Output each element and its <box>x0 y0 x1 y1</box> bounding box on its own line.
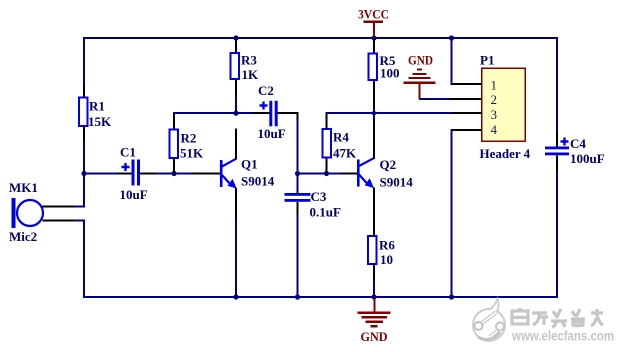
capacitor C1 <box>118 145 156 203</box>
svg-text:10uF: 10uF <box>120 187 148 202</box>
wire right rail lower <box>556 170 558 298</box>
junction top pin1 <box>449 35 454 40</box>
wire header pin1 up <box>451 38 453 85</box>
ground GND bottom <box>358 298 391 344</box>
svg-text:47K: 47K <box>333 146 357 161</box>
ground GND top <box>404 53 482 101</box>
resistor R5 <box>369 39 400 108</box>
svg-text:3VCC: 3VCC <box>358 7 389 22</box>
junction top 3VCC <box>371 35 376 40</box>
capacitor C3 <box>285 175 341 220</box>
resistor R3 <box>231 39 260 95</box>
watermark text <box>511 308 614 344</box>
svg-text:4: 4 <box>491 122 498 137</box>
svg-text:GND: GND <box>408 53 433 68</box>
svg-text:C3: C3 <box>311 189 327 204</box>
svg-text:R1: R1 <box>89 99 105 114</box>
svg-text:Header 4: Header 4 <box>480 146 531 161</box>
wire left rail mid <box>83 141 85 206</box>
junction node B collector1 <box>233 111 238 116</box>
junction node A mic/R1/C1 <box>81 171 86 176</box>
wire mic bottom to bottom rail <box>83 220 85 298</box>
svg-text:C1: C1 <box>120 145 136 160</box>
wire C3 bottom down <box>297 214 299 298</box>
capacitor C2 <box>252 83 299 141</box>
svg-text:100uF: 100uF <box>570 151 605 166</box>
svg-text:10: 10 <box>380 252 393 267</box>
svg-text:Q2: Q2 <box>380 157 397 172</box>
wire R2 top feedback <box>173 112 236 114</box>
junction R4 bottom base2 <box>324 171 329 176</box>
junction R2 bottom base1 <box>171 171 176 176</box>
junction node D collector2 <box>372 111 376 115</box>
wire R4 top to header pin3 <box>326 112 454 114</box>
wire base1 left segment <box>85 173 118 175</box>
svg-text:51K: 51K <box>180 146 204 161</box>
wire Q1 emitter down <box>235 218 237 298</box>
svg-text:10uF: 10uF <box>258 126 286 141</box>
power 3VCC <box>358 7 389 38</box>
svg-text:www.elecfans.com: www.elecfans.com <box>511 329 614 344</box>
svg-text:0.1uF: 0.1uF <box>310 205 341 220</box>
svg-text:Mic2: Mic2 <box>9 229 37 244</box>
svg-text:C2: C2 <box>258 83 274 98</box>
watermark logo <box>473 299 505 341</box>
svg-text:3: 3 <box>491 107 498 122</box>
svg-text:R3: R3 <box>241 53 257 68</box>
resistor R1 <box>79 86 112 141</box>
wire R3 bottom <box>235 95 237 114</box>
svg-text:MK1: MK1 <box>9 180 38 195</box>
resistor R4 <box>323 114 358 173</box>
svg-text:C4: C4 <box>570 136 586 151</box>
resistor R6 <box>368 236 395 281</box>
junction bottom Q1 emitter <box>233 294 238 299</box>
capacitor C4 <box>545 131 605 170</box>
svg-text:S9014: S9014 <box>380 175 414 190</box>
wire R5 bottom node <box>373 108 375 119</box>
svg-text:P1: P1 <box>480 53 494 68</box>
wire GND top link <box>419 98 451 100</box>
wire header pin4 down <box>451 129 453 297</box>
resistor R2 <box>170 114 205 173</box>
svg-text:1K: 1K <box>242 67 260 82</box>
svg-text:Q1: Q1 <box>241 157 258 172</box>
wire bottom rail <box>83 296 558 298</box>
wire right rail upper <box>556 37 558 132</box>
svg-text:R4: R4 <box>333 130 349 145</box>
junction bottom C3 <box>295 294 300 299</box>
wire C2 right down <box>297 118 299 174</box>
svg-text:15K: 15K <box>88 114 112 129</box>
junction node C base2 <box>295 171 300 176</box>
svg-text:100: 100 <box>380 66 400 81</box>
svg-text:S9014: S9014 <box>241 174 275 189</box>
wire base2 segment <box>297 173 341 175</box>
microphone MK1 <box>9 180 85 244</box>
wire node B to C2 <box>236 112 252 114</box>
wire top rail <box>83 37 558 39</box>
transistor Q2 <box>341 119 413 236</box>
junction bottom GND <box>371 294 376 299</box>
svg-text:GND: GND <box>361 329 388 344</box>
svg-text:R6: R6 <box>379 238 395 253</box>
svg-text:R2: R2 <box>181 131 197 146</box>
transistor Q1 <box>193 129 275 219</box>
junction top R3 <box>233 35 238 40</box>
junction bottom pin4 <box>449 294 454 299</box>
wire C1 to Q1 base <box>156 173 193 175</box>
wire R6 bottom <box>373 280 375 298</box>
svg-text:2: 2 <box>491 92 498 107</box>
svg-text:1: 1 <box>491 78 498 93</box>
connector P1 header <box>452 53 531 162</box>
wire left rail upper <box>83 37 85 86</box>
